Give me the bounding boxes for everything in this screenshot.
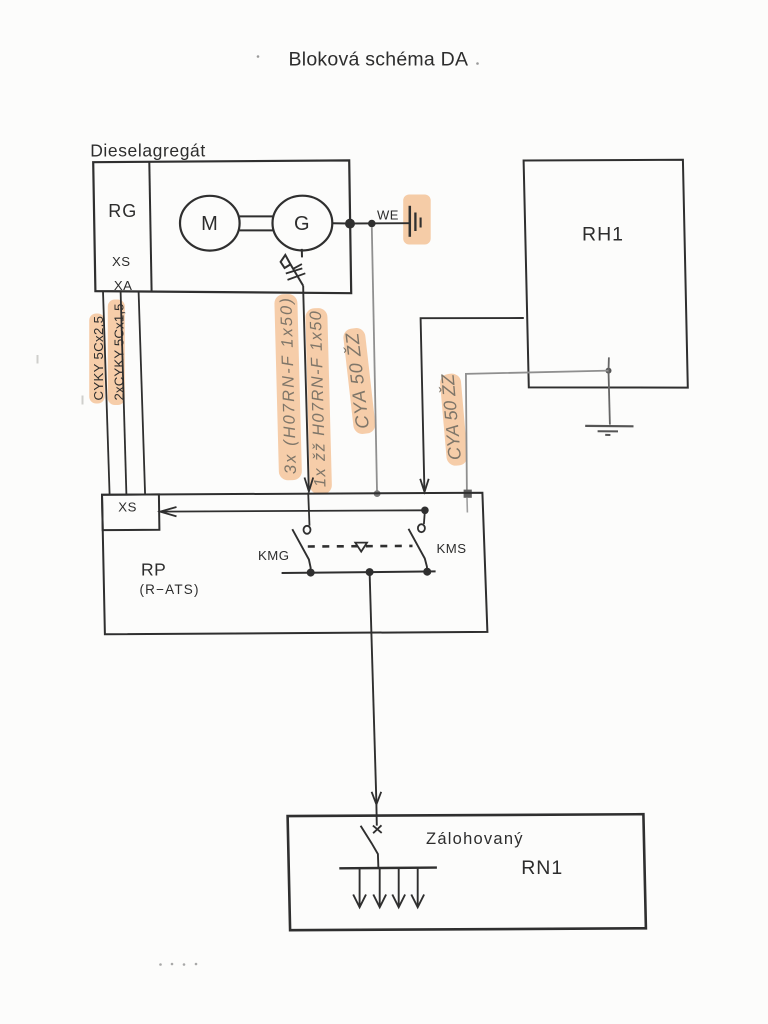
wire XA-XS 3 [139, 292, 146, 495]
arrowhead into RN1 [372, 792, 382, 805]
node output [366, 568, 374, 576]
wire G output [332, 222, 350, 224]
wire RH1 earth down [609, 371, 610, 425]
box Dieselagregat [93, 160, 351, 293]
arrowhead into RP [305, 478, 314, 492]
box RN1 [288, 814, 646, 930]
gray wire WE to RP (CYA 50 ZZ) [372, 227, 377, 491]
phase slashes [294, 264, 302, 269]
feeder arrow 2 [379, 868, 381, 905]
svg-text:KMS: KMS [436, 541, 466, 556]
box RH1 [524, 160, 688, 388]
feeder arrow 4 [417, 868, 419, 905]
svg-text:(R−ATS): (R−ATS) [140, 582, 199, 597]
cable label 2xCYKY 5Cx1,5 [111, 304, 126, 401]
interlock triangle [355, 543, 367, 552]
svg-text:WE: WE [377, 208, 399, 223]
bus in RP [282, 571, 436, 573]
motor M [180, 196, 240, 251]
wire to WE ground [350, 222, 410, 224]
svg-text:RP: RP [141, 560, 166, 580]
ground RH1 [585, 425, 633, 428]
highlight CYKY label [89, 314, 105, 404]
svg-text:XS: XS [118, 499, 137, 514]
svg-text:M: M [201, 213, 218, 235]
highlight CYA 50 ZZ label 2 [439, 373, 468, 466]
svg-text:XA: XA [114, 278, 133, 293]
coupling shaft [240, 215, 273, 217]
cable label CYA 50 ZZ 2 handwritten [437, 372, 465, 460]
wire XA-XS 2 [121, 291, 127, 494]
svg-text:Bloková schéma DA: Bloková schéma DA [289, 49, 469, 71]
wire XA-XS 1 [103, 291, 110, 494]
gray node on RP edge [374, 490, 381, 497]
gray wire RH1 earth to RP [466, 371, 609, 493]
svg-text:Zálohovaný: Zálohovaný [426, 830, 523, 848]
svg-text:XS: XS [112, 254, 131, 269]
node G output junction [345, 219, 355, 229]
node WE branch [368, 220, 376, 228]
svg-text:KMG: KMG [258, 548, 290, 563]
busbar RN1 [339, 866, 437, 869]
highlight CYA 50 ZZ label 1 [342, 327, 376, 435]
interlock dashed line [308, 545, 413, 548]
svg-text:RG: RG [108, 201, 137, 221]
cable label 1x zz H07RN-F 1x50 handwritten [307, 310, 330, 487]
wire RP to RN1 [370, 572, 377, 803]
wire G to RP (3x H07RN-F) [303, 286, 309, 490]
svg-text:RN1: RN1 [521, 857, 563, 879]
node KMS out [423, 568, 431, 576]
box RP [102, 493, 487, 635]
box XS (RP input terminal) [102, 494, 159, 530]
cable label CYA 50 ZZ 1 handwritten [341, 331, 373, 429]
wire RH1 to RP [421, 318, 524, 490]
highlight 3x H07RN-F label [274, 294, 302, 481]
node RH1 earth [606, 368, 612, 374]
highlight 2xCYKY label [108, 300, 125, 406]
node KMG out [307, 569, 315, 577]
ground WE [409, 206, 412, 237]
highlight 1x H07RN-F label [305, 308, 332, 495]
svg-text:G: G [294, 213, 310, 235]
breaker RN1 [373, 826, 382, 833]
svg-text:Dieselagregát: Dieselagregát [90, 141, 205, 161]
fuse-disconnector below G [301, 249, 303, 258]
node KMS feed [421, 507, 429, 515]
feed arrow into XS [160, 510, 425, 511]
feeder arrow 1 [359, 868, 361, 905]
cable label 3x (H07RN-F 1x50) handwritten [277, 298, 300, 474]
svg-text:RH1: RH1 [582, 224, 624, 246]
contactor KMG [308, 493, 309, 526]
divider RG compartment [149, 162, 151, 292]
cable label CYKY 5Cx2,5 [91, 316, 106, 401]
contactor KMS [424, 510, 425, 524]
generator G [273, 196, 333, 251]
feeder arrow 3 [398, 868, 400, 905]
scan specks dots [159, 963, 162, 966]
arrowhead RH1 wire [420, 479, 429, 492]
highlight WE ground [403, 195, 431, 245]
